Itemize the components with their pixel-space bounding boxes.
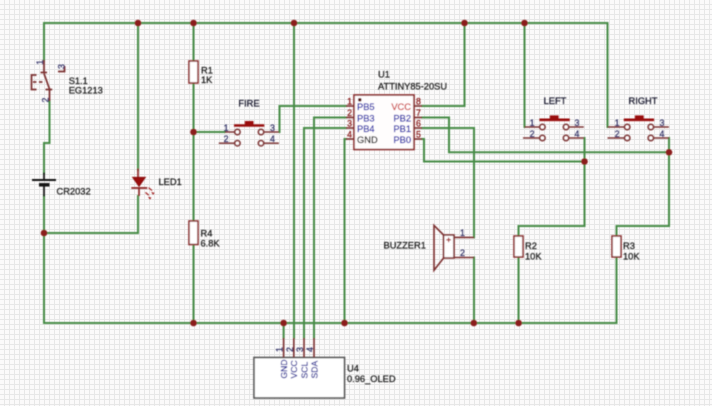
svg-text:6.8K: 6.8K bbox=[201, 239, 221, 249]
svg-text:GND: GND bbox=[279, 359, 289, 378]
svg-text:3: 3 bbox=[295, 347, 305, 352]
svg-text:5: 5 bbox=[416, 130, 421, 140]
svg-text:6: 6 bbox=[416, 119, 421, 129]
svg-text:CR2032: CR2032 bbox=[57, 187, 91, 197]
svg-text:SDA: SDA bbox=[309, 361, 319, 379]
svg-text:VCC: VCC bbox=[289, 360, 299, 378]
svg-text:R4: R4 bbox=[201, 229, 213, 239]
svg-text:8: 8 bbox=[416, 97, 421, 107]
svg-text:1: 1 bbox=[35, 60, 45, 65]
svg-text:R2: R2 bbox=[525, 241, 537, 251]
svg-text:3: 3 bbox=[347, 119, 352, 129]
svg-text:BUZZER1: BUZZER1 bbox=[384, 241, 426, 251]
svg-text:2: 2 bbox=[285, 347, 295, 352]
svg-text:R3: R3 bbox=[623, 241, 635, 251]
svg-text:RIGHT: RIGHT bbox=[629, 96, 658, 106]
svg-text:3: 3 bbox=[270, 123, 275, 133]
svg-text:R1: R1 bbox=[201, 66, 213, 76]
svg-text:PB5: PB5 bbox=[357, 102, 375, 112]
svg-text:U1: U1 bbox=[378, 70, 390, 80]
svg-text:PB1: PB1 bbox=[393, 124, 411, 134]
svg-text:GND: GND bbox=[357, 135, 378, 145]
svg-text:SCL: SCL bbox=[299, 362, 309, 379]
svg-text:LEFT: LEFT bbox=[544, 96, 567, 106]
svg-text:PB2: PB2 bbox=[393, 114, 411, 124]
svg-text:PB0: PB0 bbox=[393, 135, 411, 145]
svg-text:10K: 10K bbox=[525, 252, 542, 262]
svg-text:ATTINY85-20SU: ATTINY85-20SU bbox=[378, 82, 447, 92]
svg-text:4: 4 bbox=[660, 129, 665, 139]
svg-text:EG1213: EG1213 bbox=[69, 86, 103, 96]
svg-text:U4: U4 bbox=[347, 364, 359, 374]
svg-text:1: 1 bbox=[530, 118, 535, 128]
svg-text:1K: 1K bbox=[201, 75, 213, 85]
svg-text:4: 4 bbox=[347, 130, 352, 140]
svg-text:7: 7 bbox=[416, 108, 421, 118]
svg-text:3: 3 bbox=[56, 64, 66, 69]
svg-text:1: 1 bbox=[615, 118, 620, 128]
svg-text:3: 3 bbox=[575, 118, 580, 128]
svg-text:FIRE: FIRE bbox=[238, 99, 259, 109]
svg-text:LED1: LED1 bbox=[159, 177, 182, 187]
svg-text:1: 1 bbox=[460, 228, 465, 238]
svg-text:3: 3 bbox=[660, 118, 665, 128]
svg-text:2: 2 bbox=[224, 134, 229, 144]
svg-text:2: 2 bbox=[530, 129, 535, 139]
svg-text:4: 4 bbox=[270, 134, 275, 144]
svg-text:2: 2 bbox=[615, 129, 620, 139]
svg-text:4: 4 bbox=[305, 347, 315, 352]
svg-text:2: 2 bbox=[347, 108, 352, 118]
svg-text:2: 2 bbox=[460, 248, 465, 258]
svg-text:0.96_OLED: 0.96_OLED bbox=[347, 374, 396, 384]
svg-text:1: 1 bbox=[347, 97, 352, 107]
svg-text:1: 1 bbox=[224, 123, 229, 133]
svg-text:2: 2 bbox=[40, 98, 50, 103]
svg-text:10K: 10K bbox=[623, 252, 640, 262]
svg-text:PB3: PB3 bbox=[357, 114, 375, 124]
svg-text:PB4: PB4 bbox=[357, 124, 375, 134]
svg-text:VCC: VCC bbox=[391, 102, 411, 112]
svg-text:S1.1: S1.1 bbox=[69, 76, 88, 86]
svg-text:4: 4 bbox=[575, 129, 580, 139]
svg-text:1: 1 bbox=[275, 347, 285, 352]
